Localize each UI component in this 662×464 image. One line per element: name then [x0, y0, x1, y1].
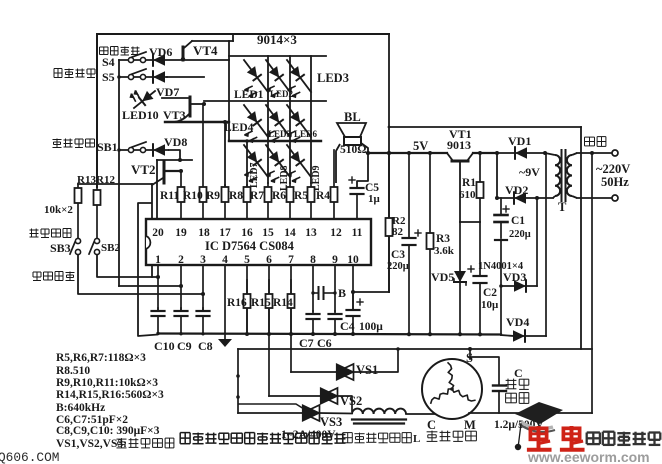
label VD5	[431, 270, 454, 284]
label LED10	[122, 108, 159, 122]
label R12	[96, 174, 115, 186]
wire pin1 col	[157, 265, 159, 311]
label R3	[436, 233, 450, 245]
node VD2 joint	[535, 196, 539, 200]
svg-text:VS1,VS2,VS3:: VS1,VS2,VS3:	[56, 438, 127, 450]
svg-text:~220V: ~220V	[596, 162, 630, 176]
diode VD1	[515, 147, 527, 159]
svg-text:C10: C10	[154, 339, 175, 353]
wire pin5 col	[246, 265, 248, 334]
ic U1 box	[146, 219, 371, 265]
svg-text:S4: S4	[102, 55, 115, 69]
diode VD3	[514, 280, 526, 292]
node SB1 tap	[117, 148, 121, 152]
node gnd C4	[351, 332, 355, 336]
capacitor C5	[349, 177, 364, 219]
svg-text:LED5: LED5	[268, 129, 292, 139]
node VT3 collector	[202, 102, 206, 106]
svg-text:C8: C8	[198, 339, 213, 353]
label S5	[102, 70, 115, 84]
ground symbol	[218, 339, 232, 347]
svg-text:C1: C1	[511, 215, 525, 227]
svg-text:LED2: LED2	[270, 89, 294, 99]
wire pin7 col	[290, 265, 292, 372]
svg-text:3.6k: 3.6k	[434, 245, 455, 257]
node gnd R3	[428, 332, 432, 336]
svg-text:R5,R6,R7:118Ω×3: R5,R6,R7:118Ω×3	[56, 352, 146, 364]
label VT1	[449, 127, 472, 141]
label R15	[251, 297, 271, 309]
wire pin20 net	[157, 160, 192, 219]
wire VD3 up	[536, 198, 538, 286]
capacitor C1	[495, 198, 510, 240]
wire R9 top	[223, 120, 227, 186]
svg-text:R5: R5	[294, 190, 308, 202]
led LED8	[266, 145, 290, 183]
svg-text:L: L	[413, 433, 420, 445]
capacitor C8	[197, 308, 210, 333]
label R1	[462, 177, 476, 189]
transistor VT2	[131, 161, 181, 185]
label VD6	[149, 45, 172, 59]
svg-text:C8,C9,C10: 390μF×3: C8,C9,C10: 390μF×3	[56, 425, 160, 437]
svg-text:S5: S5	[102, 70, 115, 84]
svg-text:BL: BL	[344, 110, 361, 124]
diode VD2	[514, 192, 526, 204]
led LED1	[244, 60, 268, 98]
svg-text:R12: R12	[96, 174, 115, 186]
node VD2 left	[495, 196, 499, 200]
wire ground rail	[158, 334, 501, 335]
wire pin8 col	[312, 265, 314, 311]
svg-text:M: M	[464, 418, 476, 432]
wire VT1 base bar	[460, 221, 480, 223]
svg-text:C6: C6	[317, 336, 332, 350]
label triac rating	[281, 429, 336, 441]
label R2	[392, 215, 406, 227]
node gnd VD5	[458, 332, 462, 336]
motor M1 circle	[422, 359, 482, 419]
label breeze switch	[30, 229, 72, 238]
wire R13 R12 top	[78, 183, 152, 185]
label VD2	[505, 183, 528, 197]
wire R8 top	[245, 139, 249, 186]
node top-right corner	[388, 126, 391, 129]
label LED6	[294, 129, 318, 139]
label LED5	[268, 129, 292, 139]
wire VS1 feed	[291, 371, 336, 373]
label 9014x3	[257, 32, 297, 47]
label cap rating	[494, 419, 544, 431]
wire S lead	[468, 347, 472, 359]
node SB1 joint	[178, 158, 182, 162]
label SB1	[97, 140, 118, 154]
diode VD5	[454, 222, 466, 334]
label caption	[180, 433, 345, 444]
motor windings	[431, 362, 476, 404]
resistor R2	[386, 153, 393, 292]
label R11	[160, 190, 179, 202]
switch SB1	[128, 142, 146, 153]
svg-text:13: 13	[305, 227, 317, 239]
node rail x389	[387, 151, 391, 155]
wire speaker right lead	[361, 143, 370, 155]
wire right border	[580, 127, 582, 349]
speaker BL	[337, 123, 366, 145]
node gnd C6	[333, 332, 337, 336]
node C3 rail	[407, 151, 411, 155]
label R3 value	[434, 245, 455, 257]
svg-text:C: C	[514, 366, 523, 380]
svg-text:12: 12	[330, 227, 342, 239]
label top pin numbers	[152, 227, 362, 239]
diode VD6	[153, 54, 165, 66]
label S	[466, 351, 473, 365]
label C5 value	[368, 193, 381, 205]
label VD4	[506, 315, 529, 329]
led LED6	[287, 105, 311, 143]
led LED7	[244, 145, 268, 183]
label VS3	[320, 415, 342, 429]
svg-text:LED3: LED3	[317, 71, 349, 85]
label dianrong	[506, 393, 529, 404]
wire VT2 emitter drop	[151, 184, 153, 277]
svg-text:Q606.COM: Q606.COM	[0, 450, 59, 464]
svg-text:R16: R16	[227, 297, 247, 309]
svg-text:10k×2: 10k×2	[44, 204, 73, 216]
wire S5 row	[119, 76, 167, 78]
node pin1 tap	[156, 275, 160, 279]
label 220V	[596, 162, 630, 176]
capacitor C6	[329, 311, 342, 334]
svg-text:VD4: VD4	[506, 315, 529, 329]
wire SB3 to pin3	[78, 254, 203, 294]
resistor R4	[331, 150, 338, 219]
label R1 value	[459, 189, 476, 201]
wire live drop	[590, 151, 594, 413]
label C3	[391, 249, 405, 261]
svg-text:14: 14	[284, 227, 296, 239]
label C9	[177, 339, 192, 353]
label 100u	[359, 321, 383, 333]
resistor R15	[266, 280, 273, 334]
label inductor	[343, 433, 420, 445]
label C10	[154, 339, 175, 353]
wire VD4 net	[501, 335, 546, 336]
svg-text:82: 82	[392, 226, 404, 238]
label timer switch	[100, 47, 140, 56]
wire LED col1	[267, 56, 269, 183]
label LED8	[279, 165, 290, 191]
svg-text:SB3: SB3	[50, 241, 71, 255]
node bus gate1	[236, 374, 240, 378]
svg-text:10μ: 10μ	[481, 299, 499, 311]
triac VS1	[337, 364, 354, 380]
capacitor C10	[152, 308, 165, 333]
transistor VT4	[181, 41, 218, 61]
svg-text:C7: C7	[299, 336, 314, 350]
wire VS3 feed	[238, 404, 304, 413]
svg-text:VD8: VD8	[164, 135, 187, 149]
wire VT4 collector	[192, 34, 233, 41]
svg-text:R8: R8	[229, 190, 243, 202]
wire minus column	[500, 240, 502, 335]
svg-text:11: 11	[352, 227, 363, 239]
wire pin2 col	[180, 265, 182, 311]
svg-text:R14: R14	[273, 297, 293, 309]
capacitor C2	[468, 222, 487, 334]
svg-text:VT3: VT3	[163, 108, 186, 122]
node gnd R14	[289, 332, 293, 336]
svg-text:50Hz: 50Hz	[601, 175, 629, 189]
label C motor	[427, 418, 436, 432]
svg-text:R13: R13	[77, 174, 96, 186]
label T	[558, 200, 567, 214]
label R16	[227, 297, 247, 309]
label C3 value	[387, 261, 409, 272]
terminal live	[612, 150, 618, 156]
label qidong	[506, 379, 529, 390]
svg-text:LED10: LED10	[122, 108, 159, 122]
resistor R16	[244, 280, 251, 334]
logo hat	[515, 402, 563, 450]
svg-text:R11: R11	[160, 190, 179, 202]
capacitor C4	[347, 292, 364, 334]
wire LED row1	[229, 55, 326, 57]
wire C5 top	[357, 153, 368, 188]
resistor R9	[222, 185, 229, 219]
svg-text:VT4: VT4	[193, 43, 218, 58]
label 5V	[413, 139, 428, 153]
triac VS3	[303, 405, 320, 421]
svg-text:B:640kHz: B:640kHz	[56, 402, 105, 414]
led LED2	[266, 60, 290, 98]
svg-text:R14,R15,R16:560Ω×3: R14,R15,R16:560Ω×3	[56, 389, 164, 401]
switch SB3	[70, 238, 81, 254]
svg-text:610: 610	[459, 189, 476, 201]
label R5	[294, 190, 308, 202]
label clear switch	[53, 139, 95, 148]
svg-text:LED7: LED7	[249, 162, 260, 188]
wire SB1 row	[119, 149, 168, 151]
resistor R14	[288, 280, 295, 334]
diode VD7	[153, 71, 165, 83]
wire x119 switch common	[118, 60, 120, 286]
label fan motor	[427, 431, 477, 442]
label sleep switch	[54, 69, 95, 78]
node gnd C2	[478, 332, 482, 336]
svg-text:20: 20	[152, 227, 164, 239]
crystal B	[311, 287, 336, 299]
svg-text:~9V: ~9V	[519, 165, 540, 179]
label IC name	[205, 239, 295, 253]
svg-text:220μ: 220μ	[387, 261, 409, 272]
wire y127 to right border	[389, 126, 581, 128]
svg-text:R15: R15	[251, 297, 271, 309]
label 1N4001x4	[478, 261, 524, 272]
transformer T primary	[567, 153, 577, 198]
svg-text:R3: R3	[436, 233, 450, 245]
svg-text:9014×3: 9014×3	[257, 32, 297, 47]
label bottom pin numbers	[155, 254, 359, 266]
svg-text:510Ω: 510Ω	[340, 144, 366, 156]
label C2	[483, 287, 497, 299]
wire VT3 emitter row	[165, 121, 229, 123]
node gnd C3	[407, 332, 411, 336]
label LED7	[249, 162, 260, 188]
resistor R6	[287, 183, 294, 219]
label BL	[344, 110, 361, 124]
label R14	[273, 297, 293, 309]
node pin3 tap	[201, 292, 205, 296]
wire VS2 feed	[269, 395, 320, 397]
node gnd C9	[179, 332, 182, 335]
wire VS1 out	[354, 347, 400, 372]
logo site name	[587, 432, 661, 445]
svg-text:VS1: VS1	[356, 363, 378, 377]
svg-text:C9: C9	[177, 339, 192, 353]
diode VD4	[513, 330, 525, 342]
label component list	[56, 352, 164, 437]
wire pin10 link	[351, 151, 391, 294]
label VD1	[508, 134, 531, 148]
label R4	[316, 190, 330, 202]
label M motor	[464, 418, 476, 432]
wire VD7 out	[167, 76, 204, 78]
svg-text:C: C	[427, 418, 436, 432]
svg-text:1μ: 1μ	[368, 193, 381, 205]
svg-text:R6: R6	[272, 190, 286, 202]
svg-text:VD2: VD2	[505, 183, 528, 197]
wire emitter ground branch	[138, 203, 158, 336]
svg-text:LED1: LED1	[234, 89, 264, 101]
diode VD8	[153, 144, 165, 156]
svg-text:LED6: LED6	[294, 129, 318, 139]
svg-text:VS3: VS3	[320, 415, 342, 429]
svg-text:R10: R10	[183, 190, 203, 202]
wire top-right drop	[388, 34, 390, 127]
wire pin4 col	[224, 265, 226, 339]
label R8	[229, 190, 243, 202]
label VD7	[156, 85, 179, 99]
resistor R8	[244, 185, 251, 219]
label R13	[77, 174, 96, 186]
wire pin10 col	[352, 265, 354, 310]
wire VD1 net	[497, 152, 545, 154]
wire bus line B	[238, 348, 592, 350]
label C6	[317, 336, 332, 350]
node VD1 right	[543, 151, 547, 155]
inductor L	[352, 409, 406, 424]
label C7	[299, 336, 314, 350]
node VT2 collector	[179, 169, 183, 173]
wire pin9 col	[334, 265, 336, 311]
resistor R5	[308, 183, 315, 219]
label C1 value	[509, 229, 531, 240]
label VS1	[356, 363, 378, 377]
logo chongchong	[527, 426, 585, 450]
svg-text:VD7: VD7	[156, 85, 179, 99]
label R2 value	[392, 226, 404, 238]
node gnd R15	[267, 332, 271, 336]
svg-text:SB2: SB2	[101, 242, 120, 254]
svg-text:VD1: VD1	[508, 134, 531, 148]
resistor R12	[94, 187, 101, 240]
label LED9	[311, 165, 322, 191]
label LED4	[224, 122, 254, 134]
label speed switch	[33, 272, 75, 281]
label C2 value	[481, 299, 499, 311]
wire bus left	[237, 349, 239, 413]
wire pin6 col	[268, 265, 270, 396]
svg-text:B: B	[338, 286, 346, 300]
transistor VT1	[447, 153, 473, 222]
node R3 rail	[428, 151, 432, 155]
svg-text:18: 18	[198, 227, 210, 239]
wire M out	[469, 412, 592, 414]
led LED4	[244, 105, 268, 143]
node R1 rail	[478, 151, 482, 155]
label B	[338, 286, 346, 300]
label 9013	[447, 138, 471, 152]
led LED3	[287, 60, 311, 98]
wire x389 drop	[388, 127, 390, 292]
svg-text:VD5: VD5	[431, 270, 454, 284]
capacitor C3	[403, 153, 422, 334]
label VD3	[503, 270, 526, 284]
wire VD2 net	[497, 197, 553, 199]
svg-text:VT2: VT2	[131, 162, 156, 177]
label C8	[198, 339, 213, 353]
node gnd C10	[156, 332, 159, 335]
transformer T secondary	[545, 153, 560, 198]
svg-text:220μ: 220μ	[509, 229, 531, 240]
resistor R10	[200, 104, 207, 219]
svg-text:9013: 9013	[447, 138, 471, 152]
svg-text:R7: R7	[250, 190, 264, 202]
svg-text:T: T	[558, 200, 567, 214]
terminal neutral	[612, 195, 618, 201]
label C5	[365, 182, 379, 194]
svg-text:5V: 5V	[413, 139, 428, 153]
wire inductor out	[406, 413, 437, 415]
node pin2 tap	[179, 284, 183, 288]
wire LED column feed	[228, 41, 230, 141]
wire pin3 col	[202, 265, 204, 311]
wire VS3 out	[319, 412, 352, 415]
capacitor C7	[307, 311, 320, 334]
resistor R11	[178, 171, 185, 219]
transistor VT3	[162, 97, 204, 122]
svg-text:15: 15	[262, 227, 274, 239]
wire VS2 out	[338, 396, 352, 412]
label R7	[250, 190, 264, 202]
wire plus column	[496, 153, 498, 198]
svg-text:C2: C2	[483, 287, 497, 299]
svg-text:100μ: 100μ	[359, 321, 383, 333]
label triac note	[56, 438, 174, 450]
label 10k x2	[44, 204, 73, 216]
wire LED row3	[229, 140, 321, 142]
wire LED col2	[289, 56, 291, 183]
node bus gate2	[236, 395, 240, 399]
switch S5	[128, 69, 146, 80]
node gnd R16	[245, 332, 249, 336]
svg-text:19: 19	[175, 227, 187, 239]
label LED3	[317, 71, 349, 85]
svg-text:LED4: LED4	[224, 122, 254, 134]
transformer T core	[562, 150, 566, 201]
